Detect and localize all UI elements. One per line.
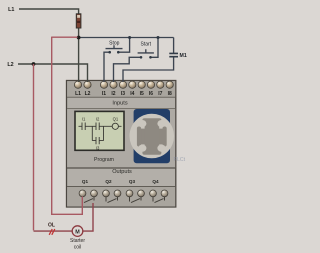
svg-text:I8: I8 xyxy=(168,91,172,97)
svg-text:I4: I4 xyxy=(130,91,134,97)
svg-text:Q3: Q3 xyxy=(129,179,136,184)
svg-text:PLCt: PLCt xyxy=(174,157,186,163)
svg-text:Start: Start xyxy=(141,41,152,47)
svg-text:L1: L1 xyxy=(75,91,81,97)
svg-text:I1: I1 xyxy=(102,91,106,97)
svg-text:M1: M1 xyxy=(180,53,187,59)
svg-text:L2: L2 xyxy=(85,91,91,97)
svg-text:L1: L1 xyxy=(8,7,14,13)
svg-text:L2: L2 xyxy=(7,62,13,68)
svg-text:Q1: Q1 xyxy=(113,117,119,122)
svg-text:M: M xyxy=(75,230,80,236)
svg-text:Stop: Stop xyxy=(109,40,120,46)
svg-text:Q1: Q1 xyxy=(82,179,89,184)
svg-text:Q4: Q4 xyxy=(152,179,159,184)
svg-text:I6: I6 xyxy=(149,91,153,97)
svg-text:OL: OL xyxy=(48,222,55,228)
svg-text:Inputs: Inputs xyxy=(112,101,127,107)
svg-text:Starter: Starter xyxy=(70,238,85,244)
svg-text:coil: coil xyxy=(74,244,82,250)
svg-text:I3: I3 xyxy=(121,91,125,97)
svg-text:I7: I7 xyxy=(158,91,162,97)
svg-text:Program: Program xyxy=(94,157,114,163)
svg-text:I5: I5 xyxy=(140,91,144,97)
svg-text:Outputs: Outputs xyxy=(112,169,132,175)
svg-text:Q2: Q2 xyxy=(105,179,112,184)
svg-text:I2: I2 xyxy=(111,91,115,97)
